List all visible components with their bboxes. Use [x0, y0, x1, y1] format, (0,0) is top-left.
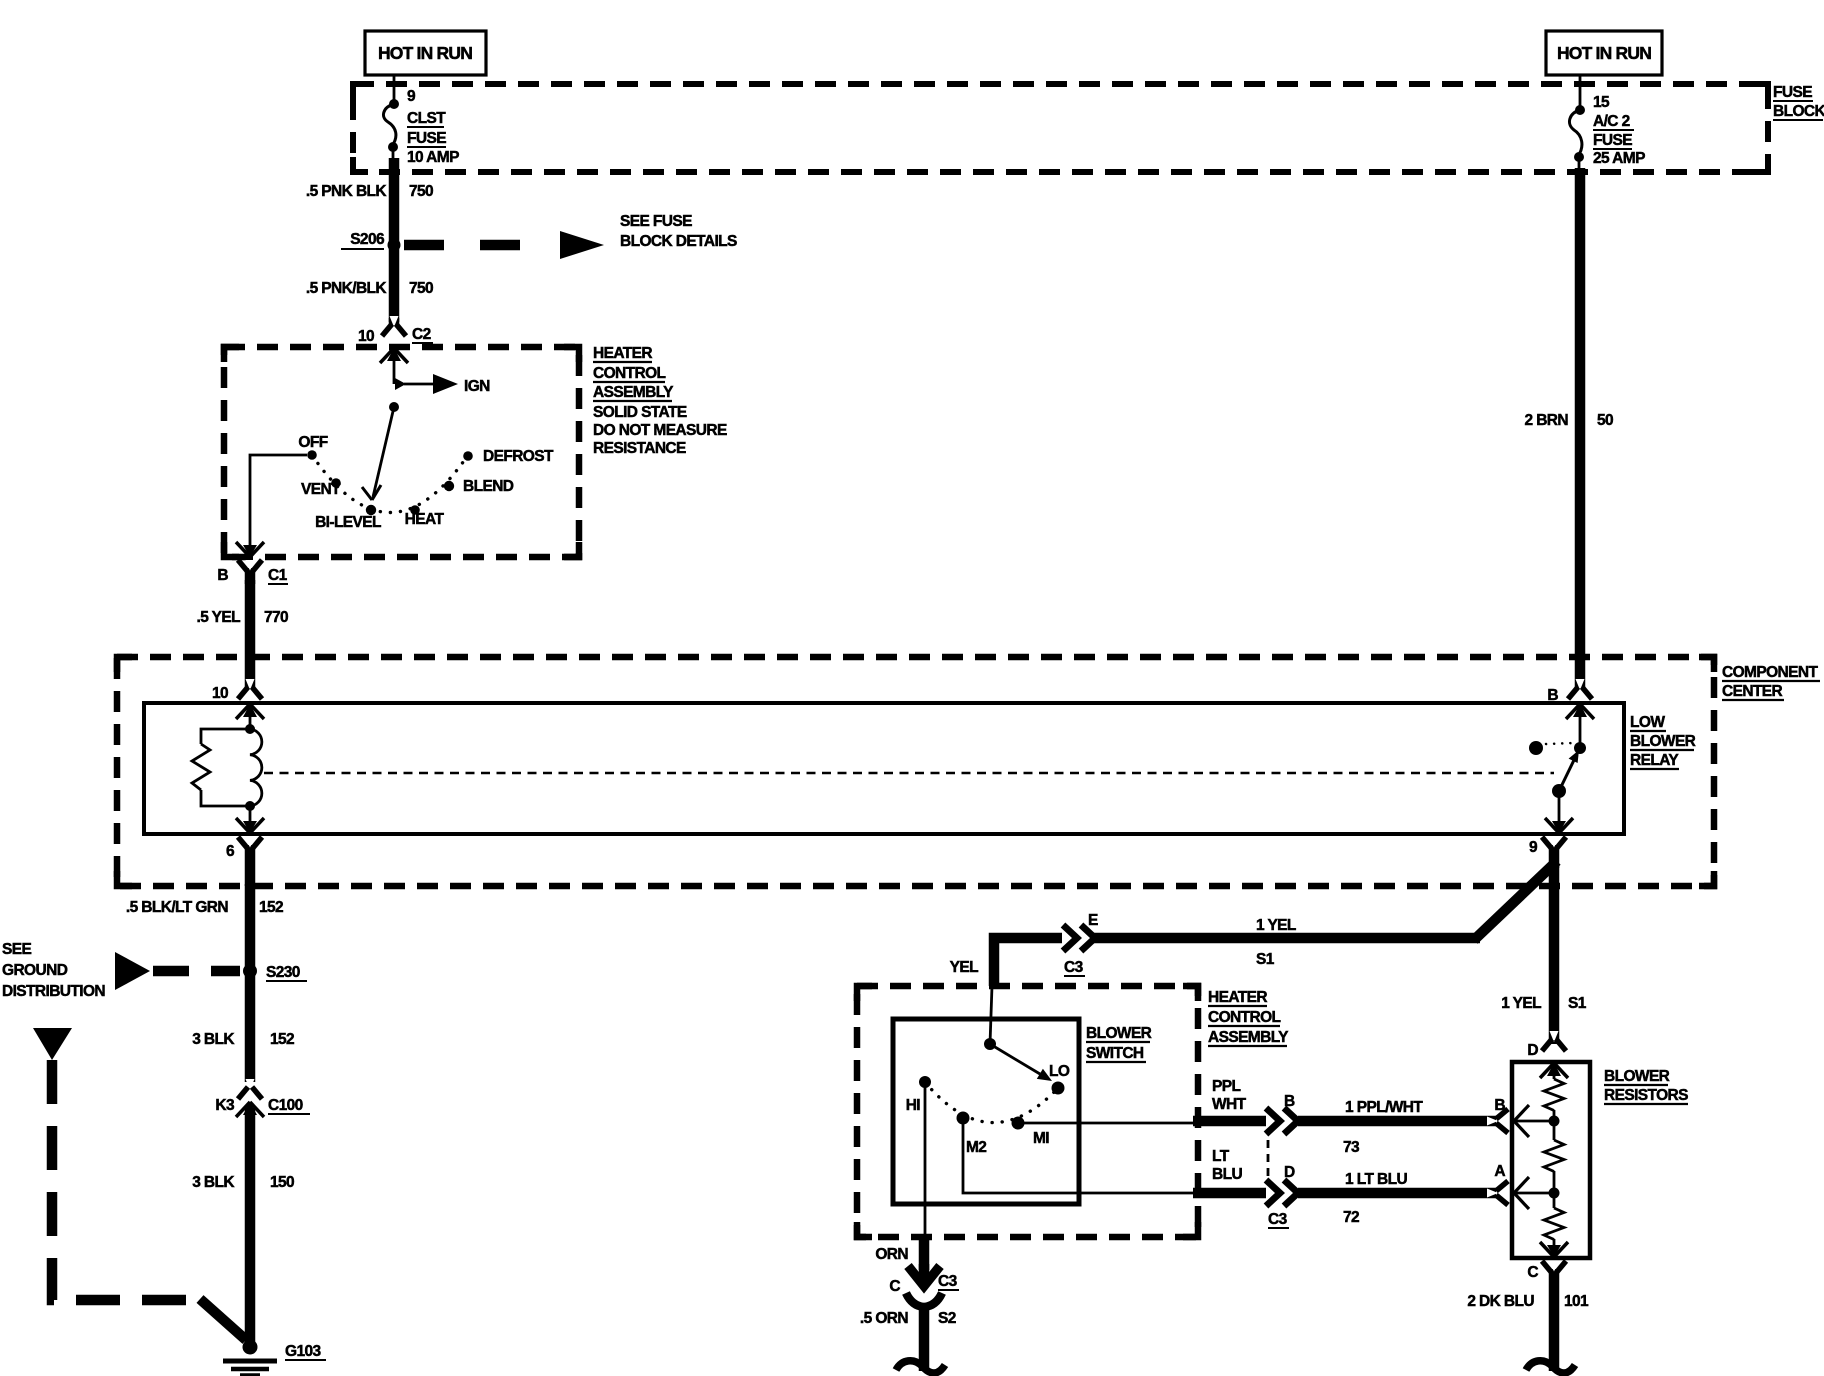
wire relay linkage (thin dashed) [264, 772, 1554, 775]
svg-text:RESISTORS: RESISTORS [1604, 1087, 1688, 1104]
label HEATER CONTROL ASSEMBLY (lower) [1208, 989, 1289, 1046]
svg-text:ORN: ORN [875, 1246, 908, 1263]
wire (dashed) S206 to fuse block details arrow [404, 240, 521, 251]
svg-text:C3: C3 [1268, 1211, 1288, 1228]
arrow SEE FUSE BLOCK DETAILS [560, 213, 737, 259]
svg-text:GROUND: GROUND [2, 962, 68, 979]
resistor R3 [1544, 1208, 1564, 1240]
wire 1 LT BLU 72 (C3 to blower resistors A) [1298, 1171, 1496, 1226]
labels 9 / CLST / FUSE / 10 AMP [407, 88, 459, 166]
component center (dashed box) [117, 657, 1714, 886]
wire .5 BLK/LT GRN 152 (pin 6 to S230) [245, 884, 256, 968]
svg-text:HEAT: HEAT [405, 511, 445, 528]
svg-text:72: 72 [1343, 1209, 1359, 1226]
node M2 [957, 1112, 987, 1157]
node BLEND [444, 478, 514, 495]
label BLOWER RESISTORS [1604, 1068, 1688, 1104]
label LOW BLOWER RELAY [1630, 714, 1696, 769]
svg-text:50: 50 [1597, 412, 1613, 429]
svg-text:YEL: YEL [950, 959, 978, 976]
relay coil with parallel resistor [192, 724, 262, 811]
connector pin B of resistors (female wire end + male arrow left) [1487, 1097, 1554, 1137]
wire PPL WHT [1193, 1078, 1266, 1121]
svg-text:DO NOT MEASURE: DO NOT MEASURE [593, 422, 727, 439]
svg-text:BI-LEVEL: BI-LEVEL [315, 514, 381, 531]
svg-text:C100: C100 [268, 1097, 303, 1114]
svg-text:150: 150 [270, 1174, 294, 1191]
power source HOT IN RUN (left) [365, 31, 486, 75]
label 3 BLK / 152 [192, 1031, 294, 1048]
svg-text:ASSEMBLY: ASSEMBLY [593, 384, 674, 401]
svg-text:VENT: VENT [301, 481, 341, 498]
svg-text:.5 BLK/LT GRN: .5 BLK/LT GRN [126, 899, 229, 916]
svg-text:73: 73 [1343, 1139, 1360, 1156]
svg-text:PPL: PPL [1212, 1078, 1240, 1095]
label 3 BLK / 150 [192, 1174, 294, 1191]
svg-text:S230: S230 [266, 964, 300, 981]
svg-text:C: C [1527, 1264, 1538, 1281]
svg-text:BLOCK: BLOCK [1773, 103, 1824, 120]
label .5 PNK/BLK / 750 [306, 280, 433, 297]
svg-text:BLOWER: BLOWER [1086, 1025, 1152, 1042]
svg-text:770: 770 [264, 609, 288, 626]
labels 15 / A/C 2 / FUSE / 25 AMP [1593, 94, 1645, 167]
svg-text:BLOCK DETAILS: BLOCK DETAILS [620, 233, 737, 250]
svg-text:COMPONENT: COMPONENT [1722, 664, 1818, 681]
label COMPONENT CENTER [1722, 664, 1820, 700]
svg-text:10: 10 [358, 328, 374, 345]
node HI [906, 1076, 931, 1114]
svg-text:HOT IN RUN: HOT IN RUN [378, 43, 472, 63]
connector pin 6 (male half, arrow down inside relay) [236, 806, 264, 833]
svg-text:1 YEL: 1 YEL [1256, 917, 1296, 934]
svg-text:C1: C1 [268, 567, 288, 584]
svg-text:E: E [1088, 912, 1098, 929]
label .5 YEL / 770 [197, 609, 289, 626]
svg-text:G103: G103 [285, 1343, 321, 1360]
svg-text:S2: S2 [938, 1310, 956, 1327]
label .5 BLK/LT GRN / 152 [126, 899, 283, 916]
label FUSE BLOCK [1773, 84, 1824, 120]
svg-text:HOT IN RUN: HOT IN RUN [1557, 43, 1651, 63]
svg-text:C2: C2 [412, 326, 431, 343]
node DEFROST [463, 448, 554, 465]
svg-text:C3: C3 [1064, 959, 1084, 976]
svg-text:3 BLK: 3 BLK [192, 1031, 235, 1048]
svg-text:SWITCH: SWITCH [1086, 1045, 1144, 1062]
wire .5 PNK/BLK 750 (S206 to C2) [389, 245, 400, 322]
label 1 YEL / S1 (horizontal run) [1256, 917, 1296, 968]
svg-text:9: 9 [1529, 839, 1538, 856]
svg-text:2 DK BLU: 2 DK BLU [1467, 1293, 1534, 1310]
wire 2 BRN 50 (fuse to relay pin B) [1579, 157, 1580, 688]
wire MI to C3 pin B [1023, 1122, 1194, 1125]
svg-text:BLOWER: BLOWER [1630, 733, 1696, 750]
ground G103 [223, 1340, 326, 1376]
label 1 YEL / S1 (vertical run) [1501, 995, 1587, 1012]
svg-text:.5 ORN: .5 ORN [860, 1310, 908, 1327]
heater control assembly (dashed box, lower) [857, 986, 1198, 1237]
mode switch contact arc (dotted) [312, 455, 468, 513]
power source HOT IN RUN (right) [1546, 31, 1662, 75]
svg-text:FUSE: FUSE [1593, 132, 1632, 149]
wire HI to C3 pin C (ORN) [875, 1082, 925, 1270]
resistor R2 [1544, 1140, 1564, 1172]
svg-text:9: 9 [407, 88, 416, 105]
svg-text:SOLID STATE: SOLID STATE [593, 404, 687, 421]
svg-text:750: 750 [409, 183, 433, 200]
connector C3 pin D (male chevron + female) [1266, 1140, 1298, 1228]
wire .5 PNK BLK 750 (fuse to S206) [393, 147, 394, 242]
svg-text:C3: C3 [938, 1273, 958, 1290]
svg-text:DEFROST: DEFROST [483, 448, 554, 465]
arrow SEE GROUND DISTRIBUTION [2, 941, 240, 1000]
node MI [1012, 1117, 1050, 1148]
svg-text:OFF: OFF [298, 434, 327, 451]
svg-text:101: 101 [1564, 1293, 1589, 1310]
connector C3 pin E (female half) [1064, 912, 1098, 976]
svg-text:3 BLK: 3 BLK [192, 1174, 235, 1191]
node A junction [1549, 1171, 1560, 1208]
connector pin B (male half, arrow up into relay) [1566, 704, 1594, 748]
svg-text:LOW: LOW [1630, 714, 1665, 731]
svg-text:BLEND: BLEND [463, 478, 514, 495]
svg-text:LT: LT [1212, 1148, 1230, 1165]
connector pin A of resistors (female wire end + male arrow left) [1487, 1163, 1554, 1209]
relay contact arm [1552, 750, 1579, 798]
splice S230 [243, 964, 307, 981]
label 2 BRN / 50 [1524, 412, 1613, 429]
connector C3 pin C (female half) [906, 1293, 942, 1371]
svg-text:CENTER: CENTER [1722, 683, 1783, 700]
splice S206 [341, 231, 401, 252]
wire mode switch wiper [362, 402, 399, 500]
svg-text:HEATER: HEATER [1208, 989, 1267, 1006]
svg-text:.5 YEL: .5 YEL [197, 609, 241, 626]
svg-text:15: 15 [1593, 94, 1610, 111]
svg-text:B: B [217, 567, 228, 584]
svg-text:S1: S1 [1568, 995, 1587, 1012]
connector pin 10 (male half, arrow up into relay) [236, 704, 264, 729]
svg-text:RELAY: RELAY [1630, 752, 1679, 769]
wire YEL (C3 E to blower switch) [950, 938, 1062, 1044]
svg-text:CLST: CLST [407, 110, 446, 127]
connector pin D (male half, arrow up into resistors) [1540, 1063, 1568, 1079]
wire 1 YEL (pin 9 down and branch to blower switch) [1094, 861, 1557, 1044]
blower switch (solid box) [893, 1019, 1079, 1204]
svg-text:BLU: BLU [1212, 1166, 1242, 1183]
svg-text:M2: M2 [966, 1139, 986, 1156]
svg-text:.5 PNK/BLK: .5 PNK/BLK [306, 280, 388, 297]
svg-text:152: 152 [270, 1031, 294, 1048]
svg-text:C: C [889, 1278, 900, 1295]
wire 2 DK BLU 101 (frayed end) [1526, 1361, 1575, 1373]
svg-text:1 PPL/WHT: 1 PPL/WHT [1345, 1099, 1423, 1116]
svg-text:2 BRN: 2 BRN [1524, 412, 1568, 429]
off-page ground branch (dashed with arrow) [33, 1028, 246, 1340]
heater control assembly (dashed box, upper) [224, 347, 579, 557]
blower switch wiper [984, 1038, 1052, 1081]
connector pin 6 (female half below relay box) [226, 837, 262, 886]
node OFF [298, 434, 327, 460]
wire .5 ORN 52 (frayed end) [896, 1361, 945, 1373]
connector pin 9 (female half below relay box) [1529, 837, 1566, 868]
svg-text:SEE FUSE: SEE FUSE [620, 213, 692, 230]
connector pin B (female half above relay box, right) [1547, 679, 1592, 704]
label .5 PNK BLK / 750 [306, 183, 433, 200]
svg-text:10 AMP: 10 AMP [407, 149, 459, 166]
wire .5 YEL 770 (C1 to component center pin 10) [245, 580, 256, 688]
blower resistors (solid box) [1512, 1062, 1590, 1258]
connector pin 10 (female half above relay box) [212, 679, 262, 702]
node VENT [301, 478, 341, 498]
svg-text:750: 750 [409, 280, 433, 297]
node B junction [1549, 1110, 1560, 1140]
svg-text:CONTROL: CONTROL [1208, 1009, 1281, 1026]
connector pin D (female half above blower resistors) [1527, 1031, 1566, 1059]
svg-text:WHT: WHT [1212, 1096, 1247, 1113]
svg-text:FUSE: FUSE [407, 130, 446, 147]
connector C3 pin C (male half, arrow down) [889, 1264, 959, 1295]
svg-text:S1: S1 [1256, 951, 1275, 968]
connector C100 pin K3 (female half) [215, 1079, 310, 1114]
svg-text:DISTRIBUTION: DISTRIBUTION [2, 983, 105, 1000]
svg-text:LO: LO [1049, 1063, 1070, 1080]
fuse CLST FUSE 10 AMP [383, 99, 399, 152]
svg-text:6: 6 [226, 843, 235, 860]
relay contact (normally open) [1529, 741, 1586, 755]
connector C2 pin 10 (female half) [358, 316, 433, 345]
node LO [1049, 1063, 1070, 1095]
wire LT BLU [1193, 1148, 1266, 1193]
label HEATER CONTROL ASSEMBLY SOLID STATE DO NOT MEASURE RESISTANCE [593, 345, 727, 457]
svg-text:A: A [1494, 1163, 1505, 1180]
blower switch contact arc (dotted) [925, 1082, 1058, 1123]
connector C100 pin K3 (male half, arrow up) [236, 1102, 264, 1117]
wire HOT IN RUN to fuse 9 [393, 75, 396, 102]
svg-text:MI: MI [1033, 1130, 1049, 1147]
connector C1 pin B (male half, arrow down) [236, 542, 264, 557]
svg-text:IGN: IGN [464, 378, 490, 395]
svg-text:1 LT BLU: 1 LT BLU [1345, 1171, 1407, 1188]
label 2 DK BLU / 101 [1467, 1293, 1589, 1310]
node HEAT [405, 505, 445, 528]
connector C1 pin B (female half) [217, 560, 288, 584]
fuse A/C 2 FUSE 25 AMP [1569, 105, 1585, 162]
svg-text:B: B [1494, 1097, 1505, 1114]
svg-text:10: 10 [212, 685, 228, 702]
node IGN branch [395, 374, 490, 395]
svg-text:ASSEMBLY: ASSEMBLY [1208, 1029, 1289, 1046]
svg-text:HI: HI [906, 1097, 921, 1114]
svg-text:D: D [1284, 1164, 1295, 1181]
connector pin C (male half, arrow down inside resistors) [1540, 1239, 1568, 1257]
label BLOWER SWITCH [1086, 1025, 1152, 1062]
wire M2 to C3 pin D [963, 1118, 1194, 1193]
connector pin C (female half below resistors) [1527, 1261, 1566, 1371]
svg-text:152: 152 [259, 899, 283, 916]
svg-text:FUSE: FUSE [1773, 84, 1812, 101]
connector C2 pin 10 (male half, into heater control) [380, 348, 408, 384]
resistor R1 [1544, 1079, 1564, 1111]
svg-text:S206: S206 [350, 231, 385, 248]
label .5 ORN / S2 [860, 1310, 956, 1327]
svg-text:D: D [1527, 1042, 1538, 1059]
svg-text:25 AMP: 25 AMP [1593, 150, 1645, 167]
svg-text:.5 PNK BLK: .5 PNK BLK [306, 183, 388, 200]
svg-text:1 YEL: 1 YEL [1501, 995, 1541, 1012]
fuse block (dashed box) [353, 84, 1768, 172]
svg-text:K3: K3 [215, 1097, 235, 1114]
wire 3 BLK 150 (C100 to G103) [245, 1108, 256, 1344]
wire HOT IN RUN to fuse 15 [1579, 75, 1582, 108]
connector pin 9 (male half, arrow down inside relay) [1545, 791, 1573, 833]
svg-text:A/C 2: A/C 2 [1593, 113, 1630, 130]
svg-text:CONTROL: CONTROL [593, 365, 666, 382]
connector C3 pin B (male chevron + female) [1266, 1093, 1298, 1134]
wire 3 BLK 152 (S230 to C100) [245, 971, 256, 1082]
connector C3 pin E (male half, chevron right) [1063, 925, 1077, 951]
svg-text:BLOWER: BLOWER [1604, 1068, 1670, 1085]
svg-text:B: B [1547, 687, 1558, 704]
wire 1 PPL/WHT 73 (C3 to blower resistors B) [1298, 1099, 1496, 1156]
svg-text:B: B [1284, 1093, 1295, 1110]
svg-text:HEATER: HEATER [593, 345, 652, 362]
svg-text:RESISTANCE: RESISTANCE [593, 440, 686, 457]
svg-text:SEE: SEE [2, 941, 31, 958]
node BI-LEVEL [315, 505, 381, 531]
wire OFF to C1 [250, 455, 307, 546]
low blower relay (inner solid box) [144, 703, 1624, 834]
